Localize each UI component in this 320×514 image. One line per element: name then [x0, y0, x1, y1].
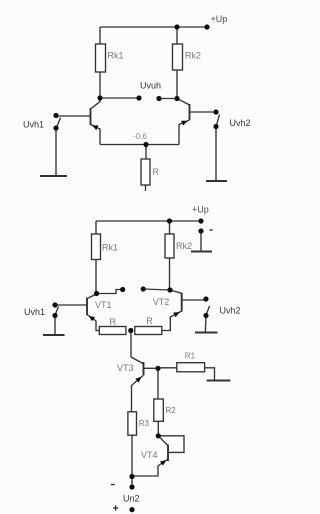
node: Uvuh left output terminal: [136, 95, 141, 100]
node: Uvuh right output terminal: [156, 96, 161, 101]
wire: right output terminal to right collector node circuit2: [143, 289, 170, 290]
terminal Uvh2: switch lever: [217, 115, 220, 126]
ground (Uvh1 circuit1): [40, 175, 67, 177]
wire: Rk2 bottom lead circuit2: [169, 258, 171, 290]
junction: emitter resistors midpoint: [128, 328, 133, 333]
transistor circuit1-right: emitter lead: [179, 120, 190, 145]
transistor VT3: emitter arrow: [135, 377, 141, 383]
svg-text:R: R: [110, 317, 117, 327]
resistor Rk2 (circuit1): [173, 44, 183, 70]
resistor R (VT2 emitter): [135, 327, 162, 335]
svg-text:VT4: VT4: [141, 450, 158, 460]
minus sign at circuit2 supply: [209, 229, 212, 231]
wire: common emitter rail circuit1: [100, 144, 179, 146]
wire: Rk1 bottom lead circuit2: [95, 260, 97, 294]
resistor Rk1 (circuit2): [92, 234, 101, 260]
node: Uvh2 upper terminal: [213, 109, 218, 114]
junction: left collector node circuit1: [97, 95, 102, 100]
svg-text:R1: R1: [185, 352, 196, 361]
wire: R1 left lead: [158, 367, 177, 369]
transistor circuit1-left: collector lead: [91, 98, 101, 109]
junction: R3 / VT4 emitter node: [129, 474, 134, 479]
wire: R1 right lead to ground: [205, 368, 215, 381]
svg-text:+Up: +Up: [192, 205, 209, 215]
terminal Uvh1: switch lever: [57, 118, 61, 127]
ground (Uvh1 circuit2): [43, 334, 65, 336]
resistor Rk1 (circuit1): [96, 44, 106, 72]
wire: Rk1 top lead circuit2: [95, 221, 97, 234]
ground (R1): [207, 379, 231, 381]
resistor R2: [154, 399, 164, 421]
node: supply minus terminal circuit2: [198, 228, 203, 233]
junction: right collector node circuit1: [174, 96, 179, 101]
node: +Up terminal circuit2: [198, 218, 203, 223]
wire: VT1 base lead from Uvh1: [55, 304, 87, 306]
wire: Un2 node to minus terminal: [131, 477, 133, 488]
wire: supply minus terminal to ground: [200, 232, 202, 251]
node: Uvh2 circuit2 lower terminal: [203, 313, 208, 318]
transistor VT3: collector lead: [131, 357, 143, 364]
svg-text:Uvh2: Uvh2: [220, 305, 241, 315]
node: Uvh2 lower terminal: [213, 124, 218, 129]
svg-text:Rk2: Rk2: [176, 241, 192, 251]
svg-text:R2: R2: [166, 406, 177, 415]
wire: Uvh2 circuit2 lower terminal to ground: [204, 317, 207, 333]
junction: emitter rail to tail resistor: [143, 142, 148, 147]
resistor R1: [177, 363, 205, 372]
svg-text:Uvh1: Uvh1: [23, 120, 44, 130]
wire: Uvh2 lower terminal to ground: [215, 128, 217, 181]
svg-text:-0.6: -0.6: [133, 132, 147, 141]
svg-text:R: R: [146, 316, 153, 326]
wire: emitter junction down to VT3 collector: [130, 331, 132, 358]
ground (circuit2 supply): [191, 250, 212, 252]
svg-text:Uvh2: Uvh2: [230, 118, 251, 128]
wire: Uvh1 lower terminal to ground: [55, 129, 57, 176]
wire: Rk2 bottom lead to right collector node: [176, 70, 178, 99]
svg-text:Rk2: Rk2: [185, 51, 201, 61]
transistor circuit1-right: base bar: [189, 104, 191, 120]
wire: tail resistor bottom stub: [145, 185, 147, 191]
transistor VT1: collector lead: [87, 294, 97, 299]
minus sign at Un2 supply: [111, 484, 115, 486]
node: Uvh2 circuit2 upper terminal: [203, 296, 208, 301]
svg-text:Rk1: Rk1: [108, 51, 124, 61]
wire: left collector node to left output terminal circuit2: [97, 290, 123, 294]
svg-text:Uvuh: Uvuh: [140, 81, 161, 91]
wire: VT2 base lead to Uvh2: [182, 299, 206, 301]
transistor VT4: base bar: [167, 445, 169, 461]
wire: VT4 base-collector tie loop: [158, 436, 184, 453]
terminal Uvh1 circuit2: switch lever: [56, 307, 59, 315]
transistor VT3: base bar: [143, 362, 145, 376]
wire: base lead from Uvh1 terminal: [56, 115, 91, 117]
wire: tail resistor top lead: [145, 145, 147, 160]
transistor VT2: emitter lead: [162, 311, 182, 331]
node: output left terminal circuit2: [120, 287, 125, 292]
transistor VT1: base bar: [86, 298, 88, 316]
junction above Rk2 circuit1: [174, 24, 179, 29]
node: Uvh1 circuit2 upper terminal: [52, 302, 57, 307]
resistor R (VT1 emitter): [99, 327, 126, 335]
wire: R3 bottom lead to Un2 node: [131, 435, 133, 476]
wire: left collector node to left output terminal: [100, 97, 139, 99]
transistor VT3: emitter lead: [132, 376, 144, 412]
svg-text:VT1: VT1: [95, 300, 112, 310]
wire: Rk2 top lead circuit2: [169, 221, 171, 234]
node: Un2 plus terminal: [129, 507, 134, 512]
wire: right output terminal to right collector node: [159, 98, 177, 100]
transistor VT4: collector lead: [158, 436, 168, 446]
transistor VT2: collector lead: [170, 290, 182, 293]
node: +Up terminal circuit1: [204, 24, 209, 29]
transistor circuit1-left: emitter lead: [91, 125, 101, 145]
transistor VT2: base bar: [181, 293, 183, 312]
transistor VT1: emitter arrow: [89, 316, 95, 322]
transistor circuit1-left: base bar: [90, 108, 92, 125]
svg-text:VT2: VT2: [153, 297, 170, 307]
wire: R2 top lead: [157, 368, 159, 399]
junction: VT1 collector node: [94, 291, 99, 296]
wire: Uvh1 circuit2 lower terminal to ground: [54, 317, 56, 335]
resistor R3: [128, 412, 137, 435]
junction above Rk2 circuit2: [167, 218, 172, 223]
wire: VT3 base lead to R1/R2 node: [144, 367, 159, 369]
junction: VT3 base / R1 / R2 node: [155, 366, 160, 371]
node: Uvh1 lower terminal: [53, 125, 58, 130]
node: output right terminal circuit2: [141, 286, 146, 291]
junction: VT2 collector node: [167, 287, 172, 292]
wire: circuit1 +Up supply rail: [100, 26, 207, 28]
svg-text:Un2: Un2: [123, 493, 140, 503]
resistor R (circuit1 tail): [141, 159, 150, 185]
svg-text:+Up: +Up: [211, 14, 228, 24]
wire: base lead to Uvh2 terminal: [190, 111, 217, 113]
svg-text:R: R: [153, 167, 160, 177]
node: Uvh1 circuit2 lower terminal: [52, 313, 57, 318]
resistor Rk2 (circuit2): [165, 234, 174, 258]
svg-text:Uvh1: Uvh1: [24, 307, 45, 317]
svg-text:R3: R3: [139, 419, 150, 428]
terminal Uvh2 circuit2: switch lever: [207, 306, 210, 314]
wire: Rk1 bottom lead to left collector node: [99, 72, 101, 98]
transistor VT4: emitter lead: [132, 459, 168, 476]
transistor VT1: emitter lead: [87, 315, 99, 331]
svg-text:Rk1: Rk1: [102, 243, 118, 253]
transistor circuit1-right: emitter arrow: [181, 121, 188, 126]
junction: R2 / VT4 collector node: [156, 433, 161, 438]
transistor VT2: emitter arrow: [173, 312, 180, 317]
svg-text:VT3: VT3: [117, 363, 134, 373]
wire: circuit2 +Up supply rail: [96, 220, 201, 222]
wire: Rk2 top lead: [176, 27, 178, 44]
wire: R2 bottom lead to VT4 collector node: [157, 421, 159, 435]
transistor VT4: emitter arrow: [160, 460, 166, 466]
transistor circuit1-left: emitter arrow: [92, 125, 99, 130]
transistor circuit1-right: collector lead: [177, 99, 190, 106]
node: Uvh1 upper terminal: [53, 113, 58, 118]
wire: Rk1 top lead: [99, 27, 101, 44]
node: Un2 minus terminal: [129, 484, 134, 489]
ground (Uvh2 circuit2): [195, 331, 218, 333]
ground (Uvh2 circuit1): [206, 180, 227, 182]
plus sign at Un2 supply: [113, 505, 118, 510]
